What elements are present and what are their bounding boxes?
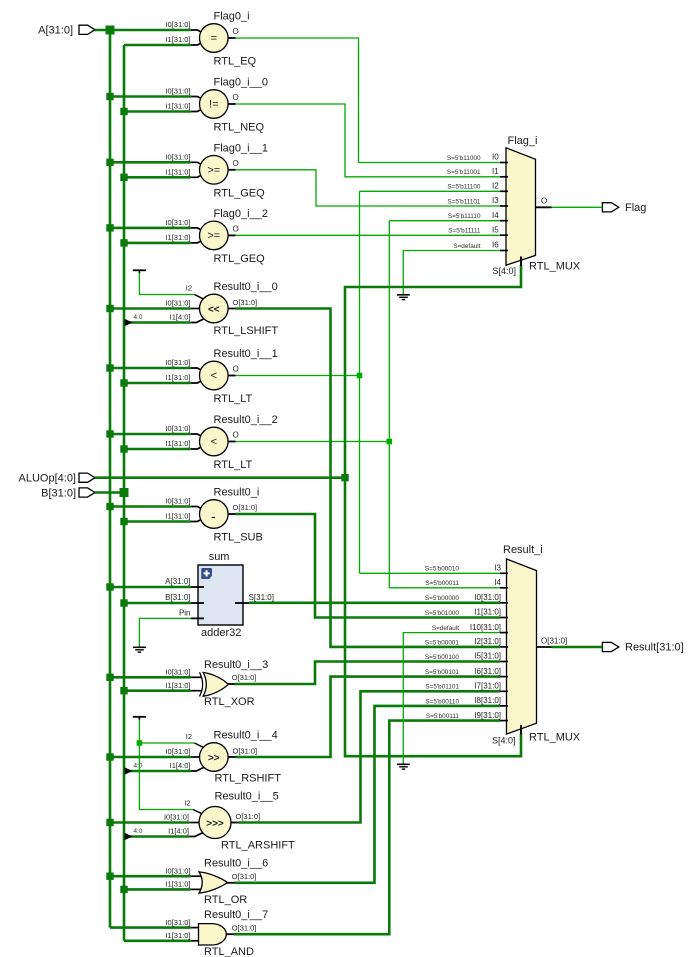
- svg-text:Result0_i__6: Result0_i__6: [204, 857, 268, 869]
- comparator U-LT1 Result0_i__1 RTL_LT: [165, 348, 277, 405]
- wire bus B to LT2.I1: [124, 448, 191, 451]
- svg-text:O: O: [233, 224, 239, 233]
- output port Result[31:0]: [602, 642, 683, 654]
- svg-text:RTL_ARSHIFT: RTL_ARSHIFT: [221, 840, 295, 852]
- svg-text:O[31:0]: O[31:0]: [233, 503, 258, 512]
- wire power to ARSHIFT.I2: [139, 743, 193, 810]
- junction bus A adder32.A: [106, 583, 113, 590]
- junction bus A XOR.I0: [106, 674, 113, 681]
- svg-text:4:0: 4:0: [134, 828, 143, 835]
- svg-text:RTL_AND: RTL_AND: [204, 946, 254, 957]
- xor gate U-XOR Result0_i__3 RTL_XOR: [165, 659, 268, 708]
- wire ripper bus B to ARSHIFT.I1: [130, 835, 189, 838]
- svg-text:I5: I5: [492, 225, 499, 234]
- svg-text:O[31:0]: O[31:0]: [541, 636, 567, 645]
- ripper tap 4:0 LSHIFT: [125, 314, 143, 326]
- svg-text:I0[31:0]: I0[31:0]: [165, 87, 190, 96]
- svg-text:RTL_MUX: RTL_MUX: [529, 732, 581, 744]
- select condition labels Flag_i: [447, 155, 481, 250]
- svg-text:S=5'b00110: S=5'b00110: [425, 698, 459, 705]
- svg-text:RTL_RSHIFT: RTL_RSHIFT: [215, 773, 282, 785]
- wire bus A to NEQ.I0: [110, 95, 191, 98]
- svg-text:Result0_i__0: Result0_i__0: [214, 281, 278, 293]
- wire Result_i.O to Result port: [534, 646, 602, 648]
- svg-text:ALUOp[4:0]: ALUOp[4:0]: [19, 472, 76, 484]
- svg-text:I0: I0: [492, 153, 499, 162]
- svg-text:I0[31:0]: I0[31:0]: [164, 813, 189, 822]
- svg-text:S=5'b01101: S=5'b01101: [425, 684, 459, 691]
- junction bus B adder32.B: [120, 599, 127, 606]
- wire power to RSHIFT.I2: [139, 720, 194, 744]
- svg-text:S[31:0]: S[31:0]: [249, 593, 274, 602]
- svg-text:RTL_NEQ: RTL_NEQ: [214, 122, 265, 134]
- wire ALUOp port to select junction: [95, 476, 345, 479]
- svg-text:S=5'b00001: S=5'b00001: [425, 639, 460, 646]
- svg-text:I0[31:0]: I0[31:0]: [165, 20, 190, 29]
- svg-text:I6: I6: [492, 241, 499, 250]
- svg-text:Result0_i__1: Result0_i__1: [214, 348, 278, 360]
- wire bus A to SUB.I0: [110, 505, 191, 508]
- svg-text:RTL_LSHIFT: RTL_LSHIFT: [214, 325, 279, 337]
- svg-text:O[31:0]: O[31:0]: [232, 923, 257, 932]
- junction bus A GEQ2.I0: [106, 224, 113, 231]
- wire bus A to AND.I0: [110, 926, 191, 929]
- svg-text:S=5'b00011: S=5'b00011: [425, 580, 459, 587]
- svg-text:I9[31:0]: I9[31:0]: [474, 711, 501, 720]
- svg-text:I0[31:0]: I0[31:0]: [165, 218, 190, 227]
- adder block sum adder32: [165, 551, 274, 639]
- svg-text:I0[31:0]: I0[31:0]: [165, 747, 190, 756]
- shifter U-ARSHIFT Result0_i__5 RTL_ARSHIFT: [164, 791, 295, 852]
- svg-text:I1[31:0]: I1[31:0]: [165, 880, 190, 889]
- svg-text:Pin: Pin: [179, 609, 191, 618]
- svg-text:A[31:0]: A[31:0]: [165, 577, 190, 586]
- wire ripper bus B to LSHIFT.I1: [130, 321, 191, 324]
- svg-text:4:0: 4:0: [134, 763, 143, 770]
- wire GEQ1.O to Flag_i.I3: [236, 170, 501, 206]
- junction bus B GEQ1.I1: [120, 174, 127, 181]
- svg-text:S=5'b00111: S=5'b00111: [426, 713, 460, 720]
- wire bus A to XOR.I0: [110, 676, 191, 679]
- wire bus B to GEQ1.I1: [124, 176, 191, 179]
- junction bus B OR.I1: [120, 886, 127, 893]
- wire Result_i.I10 to ground: [403, 633, 500, 764]
- wire GEQ2.O to Flag_i.I5: [236, 234, 501, 236]
- and gate U-AND Result0_i__7 RTL_AND: [165, 909, 268, 957]
- ripper tap 4:0 ARSHIFT: [125, 828, 143, 840]
- junction bus B LT1.I1: [120, 379, 127, 386]
- wire bus A to LSHIFT.I0: [110, 307, 191, 310]
- svg-text:4:0: 4:0: [134, 314, 143, 321]
- junction bus A LSHIFT.I0: [106, 305, 113, 312]
- junction bus A LT2.I0: [106, 430, 113, 437]
- shifter U-RSHIFT Result0_i__4 RTL_RSHIFT: [165, 729, 281, 784]
- svg-text:I3: I3: [494, 564, 501, 573]
- svg-text:I2[31:0]: I2[31:0]: [474, 637, 501, 646]
- svg-text:S=5'b11110: S=5'b11110: [448, 213, 481, 220]
- svg-text:Result0_i__7: Result0_i__7: [204, 909, 268, 921]
- or gate U-OR Result0_i__6 RTL_OR: [165, 857, 268, 906]
- svg-text:I1[31:0]: I1[31:0]: [165, 512, 190, 521]
- svg-text:S=5'b00101: S=5'b00101: [425, 669, 460, 676]
- svg-text:I1[31:0]: I1[31:0]: [165, 931, 190, 940]
- wire bus A to RSHIFT.I0: [110, 756, 191, 759]
- svg-text:O: O: [233, 431, 239, 440]
- wire ground to Flag_i.I6: [403, 251, 500, 295]
- wire Flag_i.O to Flag port: [533, 206, 602, 208]
- svg-text:I0[31:0]: I0[31:0]: [165, 497, 190, 506]
- svg-text:S[4:0]: S[4:0]: [493, 266, 517, 276]
- wire NEQ.O to Flag_i.I1: [236, 104, 501, 177]
- svg-text:RTL_OR: RTL_OR: [204, 894, 247, 906]
- svg-text:I4: I4: [494, 578, 501, 587]
- svg-text:Result[31:0]: Result[31:0]: [625, 642, 684, 654]
- input port B[31:0]: [41, 487, 95, 499]
- junction B port on bus B: [120, 488, 129, 497]
- ground Result_i default: [397, 764, 410, 769]
- svg-text:I6[31:0]: I6[31:0]: [474, 667, 501, 676]
- junction bus A NEQ.I0: [106, 93, 113, 100]
- svg-text:>=: >=: [207, 164, 220, 176]
- svg-text:>=: >=: [207, 230, 220, 242]
- svg-text:Result0_i__4: Result0_i__4: [214, 729, 278, 741]
- svg-text:I1: I1: [492, 167, 499, 176]
- svg-text:sum: sum: [209, 551, 230, 563]
- svg-text:I2: I2: [186, 732, 192, 741]
- wire bus B to LT1.I1: [124, 382, 191, 385]
- junction bus A RSHIFT.I0: [106, 753, 113, 760]
- svg-text:I7[31:0]: I7[31:0]: [474, 682, 501, 691]
- junction bus A GEQ1.I0: [106, 159, 113, 166]
- svg-text:O: O: [233, 159, 239, 168]
- svg-text:I0[31:0]: I0[31:0]: [165, 866, 190, 875]
- wire bus A to adder32.A: [110, 586, 191, 589]
- svg-text:RTL_GEQ: RTL_GEQ: [214, 253, 266, 265]
- svg-text:RTL_EQ: RTL_EQ: [214, 56, 257, 68]
- wire XOR.O to Result_i.I5: [235, 662, 501, 685]
- wire select ALUOp to Result_i.S: [345, 478, 521, 757]
- svg-text:S=5'b11111: S=5'b11111: [448, 228, 481, 235]
- svg-text:I2: I2: [492, 182, 499, 191]
- output port Flag: [602, 202, 646, 214]
- pin stubs Flag_i inputs: [500, 163, 521, 267]
- svg-text:S=5'b11001: S=5'b11001: [447, 169, 481, 176]
- power bar LSHIFT.I2 source: [133, 270, 146, 273]
- wire EQ.O to Flag_i.I0: [236, 38, 501, 163]
- svg-text:RTL_LT: RTL_LT: [214, 459, 253, 471]
- wire bus B to GEQ2.I1: [124, 242, 191, 245]
- wire ARSHIFT.O to Result_i.I7: [239, 691, 501, 822]
- wire power to LSHIFT.I2: [139, 273, 194, 295]
- svg-text:I3: I3: [492, 196, 499, 205]
- svg-text:I1[4:0]: I1[4:0]: [170, 761, 191, 770]
- svg-text:<<: <<: [208, 305, 220, 316]
- wire bus B to AND.I1: [124, 939, 191, 942]
- svg-text:B[31:0]: B[31:0]: [165, 593, 190, 602]
- svg-text:>>>: >>>: [206, 819, 224, 830]
- junction bus B NEQ.I1: [120, 108, 127, 115]
- svg-text:Result0_i: Result0_i: [214, 487, 260, 499]
- wire ripper bus B to RSHIFT.I1: [130, 770, 191, 773]
- svg-text:O[31:0]: O[31:0]: [232, 673, 257, 682]
- junction LT2.O branch: [387, 439, 393, 445]
- svg-text:I1[31:0]: I1[31:0]: [165, 35, 190, 44]
- junction power RSHIFT.I2 branch: [137, 740, 143, 746]
- wire bus B to XOR.I1: [124, 689, 191, 692]
- wire bus B to adder32.B: [124, 602, 191, 605]
- svg-text:Result0_i__5: Result0_i__5: [215, 791, 279, 803]
- svg-text:>>: >>: [208, 753, 220, 764]
- ground adder32 Pin: [133, 647, 146, 652]
- svg-text:O: O: [233, 93, 239, 102]
- wire LT2.O to Flag_i.I4 and Result_i.I4: [236, 221, 501, 588]
- svg-text:I1[4:0]: I1[4:0]: [170, 313, 191, 322]
- wire bus B to NEQ.I1: [124, 110, 191, 113]
- svg-text:-: -: [211, 508, 216, 524]
- comparator U-EQ Flag0_i RTL_EQ: [165, 11, 256, 68]
- svg-text:RTL_GEQ: RTL_GEQ: [214, 187, 266, 199]
- pin names Flag_i: [492, 153, 547, 250]
- svg-text:I1[31:0]: I1[31:0]: [165, 168, 190, 177]
- junction ALUOp select split: [341, 474, 348, 481]
- wire select ALUOp to Flag_i.S: [345, 265, 521, 478]
- wire adder32.Pin to ground: [139, 618, 190, 646]
- svg-text:Flag0_i__2: Flag0_i__2: [214, 208, 268, 220]
- svg-text:Flag: Flag: [625, 202, 646, 214]
- wire LT1.O to Flag_i.I2 and Result_i.I3: [236, 191, 501, 573]
- svg-text:I1[31:0]: I1[31:0]: [165, 439, 190, 448]
- svg-text:I0[31:0]: I0[31:0]: [165, 153, 190, 162]
- svg-text:O[31:0]: O[31:0]: [233, 298, 258, 307]
- wire bus B to EQ.I1: [124, 44, 191, 47]
- svg-text:<: <: [211, 436, 217, 448]
- junction bus B LT2.I1: [120, 445, 127, 452]
- svg-text:=: =: [211, 33, 217, 45]
- svg-text:I1[4:0]: I1[4:0]: [168, 827, 189, 836]
- ripper tap 4:0 RSHIFT: [125, 763, 143, 775]
- comparator U-GEQ2 Flag0_i__2 RTL_GEQ: [165, 208, 267, 265]
- junction bus A LT1.I0: [106, 364, 113, 371]
- svg-text:I0[31:0]: I0[31:0]: [474, 593, 501, 602]
- ground Flag_i default: [397, 295, 410, 300]
- wire bus A to ARSHIFT.I0: [110, 821, 189, 824]
- svg-text:A[31:0]: A[31:0]: [38, 25, 73, 37]
- select condition labels Result_i: [425, 566, 460, 720]
- svg-text:S=5'b00100: S=5'b00100: [425, 654, 460, 661]
- svg-text:<: <: [211, 370, 217, 382]
- pin stubs Result_i inputs: [500, 573, 521, 734]
- wire adder32.S to Result_i.I0: [249, 601, 500, 604]
- wire RSHIFT.O to Result_i.I6: [236, 677, 501, 757]
- junction bus B XOR.I1: [120, 687, 127, 694]
- wire bus A to LT1.I0: [110, 367, 191, 370]
- svg-text:Result_i: Result_i: [503, 544, 543, 556]
- svg-text:O[31:0]: O[31:0]: [232, 872, 257, 881]
- svg-text:I1[31:0]: I1[31:0]: [165, 373, 190, 382]
- junction A port on bus A: [106, 26, 115, 35]
- svg-text:O: O: [233, 365, 239, 374]
- svg-text:S[4:0]: S[4:0]: [492, 736, 516, 746]
- junction bus B GEQ2.I1: [120, 239, 127, 246]
- comparator U-LT2 Result0_i__2 RTL_LT: [165, 414, 277, 471]
- comparator U-NEQ Flag0_i__0 RTL_NEQ: [165, 77, 267, 134]
- subtractor U-SUB Result0_i RTL_SUB: [165, 487, 262, 544]
- mux Result_i RTL_MUX: [492, 544, 581, 746]
- wire bus B to OR.I1: [124, 888, 191, 891]
- svg-text:I1[31:0]: I1[31:0]: [165, 681, 190, 690]
- svg-text:Flag0_i: Flag0_i: [214, 11, 250, 23]
- svg-text:S=default: S=default: [432, 625, 459, 632]
- svg-text:S=5'b00000: S=5'b00000: [425, 595, 460, 602]
- svg-text:O[31:0]: O[31:0]: [236, 812, 261, 821]
- bus A vertical x=110: [109, 30, 112, 928]
- wire bus B to SUB.I1: [124, 520, 191, 523]
- svg-text:RTL_SUB: RTL_SUB: [214, 532, 263, 544]
- svg-text:!=: !=: [209, 99, 218, 111]
- svg-text:RTL_MUX: RTL_MUX: [529, 261, 581, 273]
- svg-text:I1[31:0]: I1[31:0]: [165, 102, 190, 111]
- wire SUB.O to Result_i.I1: [236, 514, 501, 618]
- wire OR.O to Result_i.I8: [235, 706, 501, 883]
- wire LSHIFT.O to Result_i.I2: [236, 309, 501, 647]
- svg-text:B[31:0]: B[31:0]: [41, 487, 76, 499]
- comparator U-GEQ1 Flag0_i__1 RTL_GEQ: [165, 142, 267, 199]
- svg-text:Flag_i: Flag_i: [508, 135, 538, 147]
- svg-text:Flag0_i__1: Flag0_i__1: [214, 142, 268, 154]
- bus B vertical x=124: [123, 45, 126, 941]
- svg-text:S=5'b11100: S=5'b11100: [447, 184, 481, 191]
- svg-text:I1[31:0]: I1[31:0]: [474, 608, 501, 617]
- input port ALUOp[4:0]: [19, 472, 95, 484]
- wire B port to bus B: [95, 491, 125, 494]
- svg-text:O: O: [541, 197, 547, 206]
- svg-text:I10[31:0]: I10[31:0]: [470, 623, 501, 632]
- svg-text:S=5'b00010: S=5'b00010: [425, 566, 460, 573]
- svg-text:S=5'b11101: S=5'b11101: [447, 198, 481, 205]
- junction bus B SUB.I1: [120, 518, 127, 525]
- svg-text:I8[31:0]: I8[31:0]: [474, 696, 501, 705]
- wire A port to EQ.I0: [95, 29, 191, 32]
- wire bus A to GEQ1.I0: [110, 161, 191, 164]
- input port A[31:0]: [38, 25, 95, 37]
- wire AND.O to Result_i.I9: [234, 721, 501, 935]
- svg-text:Result0_i__2: Result0_i__2: [214, 414, 278, 426]
- junction LT1.O branch: [357, 373, 363, 379]
- pin names Result_i: [470, 564, 567, 720]
- svg-text:O: O: [233, 27, 239, 36]
- svg-text:S=5'b11000: S=5'b11000: [447, 155, 481, 162]
- svg-text:I4: I4: [492, 211, 499, 220]
- svg-text:I2: I2: [186, 284, 192, 293]
- svg-text:S=5'b01000: S=5'b01000: [425, 610, 460, 617]
- svg-text:I2: I2: [184, 799, 190, 808]
- svg-text:RTL_XOR: RTL_XOR: [204, 696, 255, 708]
- svg-text:S=default: S=default: [453, 243, 480, 250]
- svg-text:I0[31:0]: I0[31:0]: [165, 668, 190, 677]
- svg-text:adder32: adder32: [201, 627, 241, 639]
- power bar RSHIFT/ARSHIFT I2 source: [133, 717, 146, 720]
- wire bus A to GEQ2.I0: [110, 227, 191, 230]
- junction bus A SUB.I0: [106, 503, 113, 510]
- svg-text:O[31:0]: O[31:0]: [233, 747, 258, 756]
- mux Flag_i RTL_MUX: [493, 135, 581, 276]
- junction bus A ARSHIFT.I0: [106, 819, 113, 826]
- svg-text:Flag0_i__0: Flag0_i__0: [214, 77, 268, 89]
- shifter U-LSHIFT Result0_i__0 RTL_LSHIFT: [165, 281, 278, 337]
- svg-text:I0[31:0]: I0[31:0]: [165, 299, 190, 308]
- wire bus A to OR.I0: [110, 875, 191, 878]
- wire bus A to LT2.I0: [110, 433, 191, 436]
- junction bus A OR.I0: [106, 873, 113, 880]
- svg-text:RTL_LT: RTL_LT: [214, 393, 253, 405]
- svg-text:Result0_i__3: Result0_i__3: [204, 659, 268, 671]
- svg-text:I0[31:0]: I0[31:0]: [165, 424, 190, 433]
- svg-text:I0[31:0]: I0[31:0]: [165, 918, 190, 927]
- svg-text:I0[31:0]: I0[31:0]: [165, 358, 190, 367]
- svg-text:I1[31:0]: I1[31:0]: [165, 233, 190, 242]
- svg-text:I5[31:0]: I5[31:0]: [474, 652, 501, 661]
